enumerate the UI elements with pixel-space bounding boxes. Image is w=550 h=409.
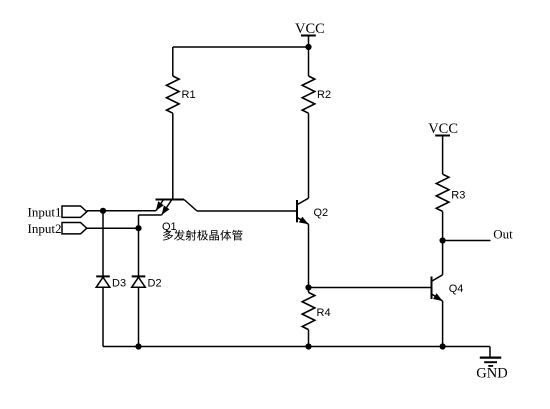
svg-text:R1: R1 [182,89,196,101]
svg-text:D2: D2 [148,278,162,290]
svg-text:R3: R3 [451,189,465,201]
svg-text:Input2: Input2 [28,221,62,236]
svg-text:Q4: Q4 [449,283,464,295]
svg-text:R4: R4 [317,307,331,319]
svg-text:Q2: Q2 [314,207,329,219]
svg-text:Input1: Input1 [28,204,62,219]
svg-text:D3: D3 [112,278,126,290]
svg-text:R2: R2 [317,89,331,101]
svg-text:GND: GND [476,366,507,382]
svg-text:Out: Out [493,227,513,242]
